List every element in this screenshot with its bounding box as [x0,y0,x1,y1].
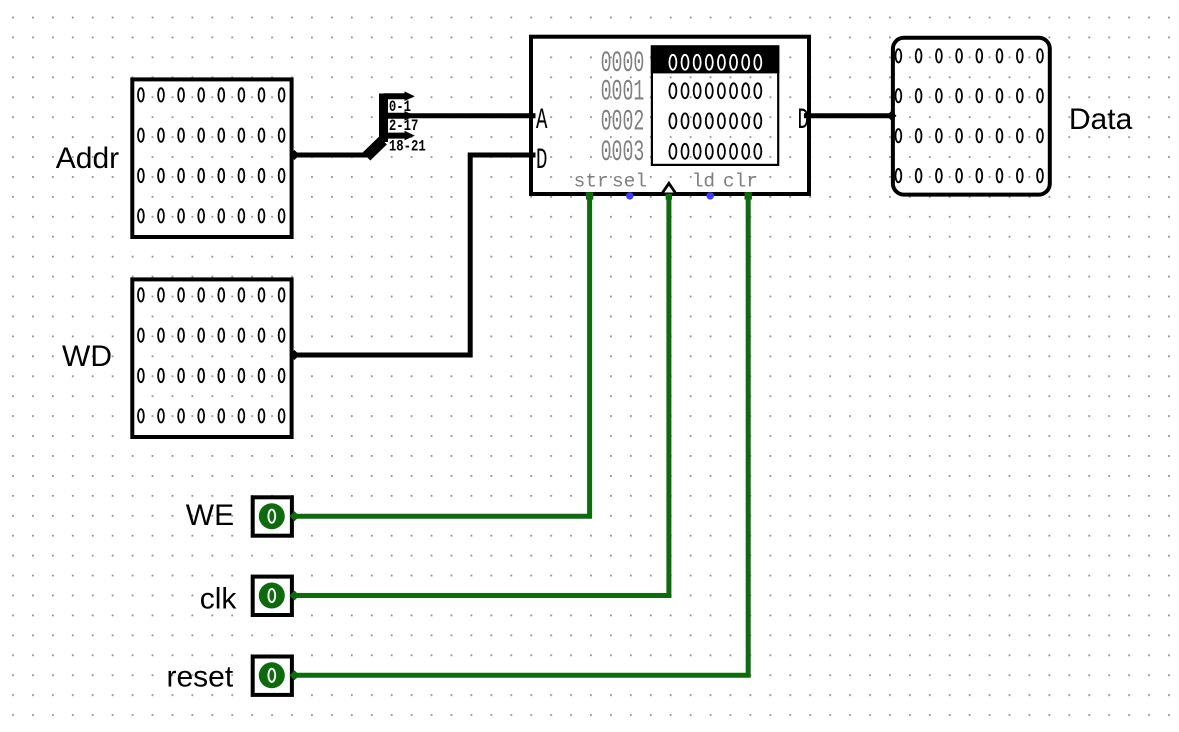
svg-text:Data: Data [1069,103,1133,136]
svg-text:D: D [798,104,809,137]
wire WE to RAM str [294,194,590,516]
svg-text:18-21: 18-21 [389,138,426,156]
wire splitter leg 2-17 to RAM port A [384,113,536,118]
svg-text:0002: 0002 [601,107,645,139]
svg-text:Addr: Addr [56,142,119,175]
splitter bit label 0-1 [389,99,411,117]
RAM address label 0000 [601,48,645,80]
junction reset port [290,670,300,680]
svg-text:WD: WD [62,340,112,373]
wire Addr to splitter [294,153,368,158]
RAM address label 0002 [601,107,645,139]
svg-text:WE: WE [186,499,234,532]
splitter bit label 18-21 [389,138,426,156]
RAM data row 2 value 00000000 [669,113,761,128]
input pin WD (8-bit x4 rows, value 0) [132,279,291,437]
svg-text:clr: clr [723,171,758,193]
RAM port label A [536,104,548,137]
svg-text:sel: sel [612,171,647,193]
RAM port ld (unconnected, blue) [707,192,714,199]
svg-text:0003: 0003 [601,137,645,169]
input pin clk (1-bit, value 0) [253,577,292,615]
output pin Data (8-bit x4 rows, value 0) [893,38,1050,195]
junction WD port [290,350,300,360]
junction Addr port [290,150,300,160]
svg-text:str: str [574,171,609,193]
wire reset to RAM clr [294,194,748,675]
RAM selected row highlight [651,45,780,73]
RAM port pad clr [745,192,752,199]
RAM data row 0 value 00000000 [669,55,761,70]
input pin WE (1-bit, value 0) [253,497,292,535]
RAM clock input triangle [663,183,676,192]
RAM U1 body [531,37,809,194]
RAM data row 3 value 00000000 [669,144,761,159]
svg-text:D: D [536,144,547,177]
junction clk port [290,591,300,601]
RAM address label 0003 [601,137,645,169]
RAM port label D (left) [536,144,547,177]
wire WD to RAM port D [294,155,536,355]
junction Data port [887,111,897,121]
svg-text:0001: 0001 [601,76,645,108]
input pin Addr (8-bit x4 rows, value 0) [132,79,291,237]
RAM memory contents box [652,47,778,165]
svg-text:ld: ld [692,171,715,193]
splitter bit label 2-17 [389,117,419,135]
RAM port sel (unconnected, blue) [626,192,633,199]
RAM data row 1 value 00000000 [669,83,761,98]
input pin reset (1-bit, value 0) [253,657,292,695]
svg-text:reset: reset [167,661,234,694]
RAM port pad clock [666,194,672,200]
svg-text:A: A [536,104,548,137]
splitter SP1 (fan-out 3: 0-1, 2-17, 18-21) [367,91,415,156]
RAM address label 0001 [601,76,645,108]
wire RAM D out to Data pin [804,113,891,118]
svg-text:clk: clk [200,583,238,616]
svg-text:2-17: 2-17 [389,117,419,135]
junction WE port [290,511,300,521]
RAM port label D (right) [798,104,809,137]
RAM port pad str [586,192,593,199]
wire clk to RAM clock [294,197,669,595]
